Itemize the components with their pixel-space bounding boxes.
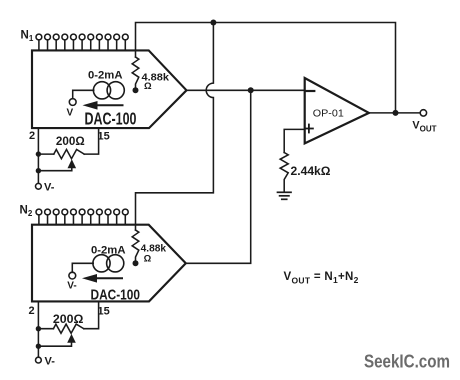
- svg-text:2: 2: [29, 305, 35, 317]
- node: R1/CS1 summing junction (DAC1): [133, 87, 139, 93]
- current direction arrow (DAC2): [82, 274, 122, 283]
- node junctions on pin2 wire (DAC1): [36, 151, 41, 173]
- svg-text:0-2mA: 0-2mA: [88, 70, 123, 82]
- svg-text:VOUT: VOUT: [412, 119, 436, 133]
- node junctions on pin2 wire (DAC2): [36, 326, 41, 349]
- resistor R2 4.88k (DAC2 internal): [132, 230, 139, 263]
- svg-text:2.44kΩ: 2.44kΩ: [291, 166, 331, 178]
- svg-text:2: 2: [29, 130, 35, 142]
- svg-text:0-2mA: 0-2mA: [91, 245, 126, 257]
- U1 inverting input sign: [306, 90, 315, 92]
- terminal V (DAC1): [69, 99, 76, 106]
- resistor R3 2.44k ohm: [280, 153, 288, 192]
- svg-text:VOUT = N1+N2: VOUT = N1+N2: [284, 271, 359, 285]
- U1 non-inverting input sign: [305, 125, 313, 133]
- DAC1 digital input terminals N1 (11 pins): [36, 34, 128, 50]
- terminal V- (DAC2): [36, 357, 42, 363]
- svg-text:N2: N2: [20, 204, 33, 218]
- resistor R1 4.88k (DAC1 internal): [132, 57, 139, 90]
- svg-text:Ω: Ω: [144, 81, 152, 92]
- svg-text:DAC-100: DAC-100: [85, 109, 137, 129]
- terminal V- (DAC2 internal): [69, 272, 76, 279]
- wire U1 output to Vout terminal: [369, 112, 420, 114]
- potentiometer P2 200 ohm (DAC2 trim): [38, 301, 98, 346]
- wire U1 noninv input to R3: [284, 129, 305, 152]
- node: top feedback junction: [210, 20, 216, 26]
- ground symbol: [278, 192, 292, 199]
- svg-text:V: V: [67, 108, 74, 119]
- wire CS1 to V terminal: [73, 90, 94, 98]
- node: summing junction at U1 inverting input: [248, 87, 254, 93]
- svg-text:DAC-100: DAC-100: [91, 287, 141, 304]
- op-amp U1 OP-01: [305, 78, 369, 143]
- potentiometer P1 200 ohm (DAC1 trim): [38, 128, 98, 171]
- wire DAC2 output up to summing node: [186, 90, 251, 263]
- current source CS2 0-2mA (DAC2): [93, 255, 124, 272]
- terminal Vout: [420, 110, 426, 116]
- svg-text:N1: N1: [21, 29, 34, 43]
- DAC1 body DAC-100: [32, 50, 187, 128]
- svg-text:15: 15: [98, 306, 110, 318]
- svg-text:15: 15: [98, 131, 110, 143]
- svg-text:Ω: Ω: [144, 253, 152, 264]
- svg-text:SeekIC.com: SeekIC.com: [364, 352, 450, 372]
- node: output/feedback junction: [393, 110, 399, 116]
- wire DAC1 output to U1 inverting input: [187, 89, 305, 91]
- svg-text:V-: V-: [67, 281, 76, 292]
- current source CS1 0-2mA (DAC1): [93, 82, 124, 99]
- svg-text:OP-01: OP-01: [313, 109, 344, 120]
- wire pin2 DAC2 down to V-: [37, 301, 39, 357]
- svg-text:200Ω: 200Ω: [56, 136, 85, 148]
- wire pin2 DAC1 down to V-: [37, 128, 39, 183]
- DAC2 body DAC-100: [32, 225, 186, 302]
- svg-text:V-: V-: [44, 182, 55, 194]
- wire from top node down to DAC2 summing resistor (hops over U1 minus input wire): [136, 23, 214, 231]
- terminal V- (DAC1): [36, 183, 42, 189]
- svg-text:200Ω: 200Ω: [53, 314, 84, 326]
- DAC2 digital input terminals N2 (11 pins): [36, 209, 128, 225]
- current direction arrow (DAC1): [83, 101, 123, 110]
- wire feedback top: from R1 top up, across, down to op-amp output: [136, 23, 396, 113]
- svg-text:V-: V-: [45, 356, 56, 368]
- node: R2/CS2 summing junction (DAC2): [133, 260, 139, 266]
- wire CS2 to V- terminal: [72, 263, 93, 272]
